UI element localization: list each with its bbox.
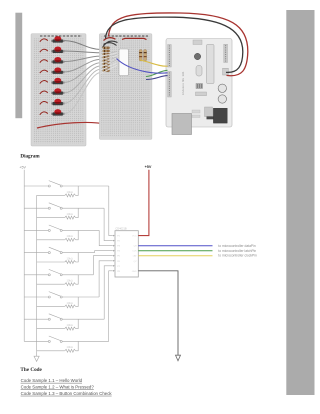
arrowhead into pin 1 <box>113 235 115 237</box>
switch S4 <box>48 247 62 253</box>
wire trunk to IC pin 1 <box>109 186 113 236</box>
wire trunk to IC pin 7 <box>104 266 113 319</box>
switch S8 <box>48 336 62 342</box>
shift register IC on breadboard 2 <box>119 49 128 76</box>
pushbutton 8 on breadboard 1 <box>51 109 64 116</box>
svg-text:to microcontroller clockPin: to microcontroller clockPin <box>218 254 257 258</box>
arrowhead into pin 7 <box>113 265 115 267</box>
wire +5V bus to switch S2 <box>24 207 48 209</box>
gray signal wire 5 from breadboard 1 to breadboard 2 <box>65 63 101 83</box>
resistor R6 10k <box>37 297 79 308</box>
svg-text:to microcontroller dataPin: to microcontroller dataPin <box>218 244 256 248</box>
wire switch S1 to trunk <box>62 185 109 187</box>
arrowhead into pin 6 <box>113 260 115 262</box>
light wires fanning to IC on breadboard 2 <box>101 53 118 74</box>
switch S3 <box>48 225 62 231</box>
ground symbol left <box>36 351 38 356</box>
wire trunk to IC pin 2 <box>104 208 113 240</box>
gray signal wire 6 from breadboard 1 to breadboard 2 <box>65 66 101 93</box>
+5V supply bus <box>23 170 25 342</box>
resistor R7 10k <box>37 319 79 330</box>
green wire breadboard2 to Arduino <box>146 70 168 76</box>
wire trunk to IC pin 6 <box>99 261 113 297</box>
switch S6 <box>48 292 62 298</box>
switch S1 <box>48 181 62 187</box>
wire switch S5 to trunk <box>62 274 93 276</box>
black power wire arc to Arduino <box>106 17 243 72</box>
wire switch S4 to trunk <box>62 252 94 254</box>
pulldown resistors column on breadboard 2 <box>103 47 110 72</box>
arrowhead into pin 5 <box>113 255 115 257</box>
red +5V wire to IC <box>138 170 149 236</box>
dark wire breadboard2 to Arduino <box>146 76 168 80</box>
svg-text:LAT: LAT <box>133 255 138 258</box>
wire trunk to IC pin 4 <box>95 251 113 253</box>
gray signal wire 1 from breadboard 1 to breadboard 2 <box>65 41 101 50</box>
IC U1 shift register box <box>115 231 138 277</box>
wire +5V bus to switch S5 <box>24 274 48 276</box>
wire switch S7 to trunk <box>62 318 104 320</box>
wire trunk to IC pin 5 <box>93 256 112 275</box>
wire +5V bus to switch S3 <box>24 229 48 231</box>
wire +5V bus to switch S7 <box>24 318 48 320</box>
wire trunk to IC pin 8 <box>109 271 113 342</box>
svg-text:10kΩ: 10kΩ <box>67 301 73 305</box>
svg-text:10kΩ: 10kΩ <box>67 256 73 260</box>
black jumper wires on breadboard 2 top <box>103 41 118 47</box>
gray signal wire 3 from breadboard 1 to breadboard 2 <box>65 56 101 61</box>
wire +5V bus to switch S4 <box>24 252 48 254</box>
breadboard 1 (buttons board) <box>31 34 86 146</box>
Arduino board <box>166 39 232 135</box>
switch S2 <box>48 203 62 209</box>
svg-text:+5V: +5V <box>19 166 26 170</box>
arrowhead into pin 3 <box>113 245 115 247</box>
resistor R8 10k <box>37 341 79 352</box>
left gray sidebar <box>15 13 22 119</box>
resistor R4 10k <box>37 253 79 264</box>
right gray sidebar <box>286 10 314 395</box>
blue wire dataPin <box>138 245 212 247</box>
red jumper wire row 1 on breadboard 1 <box>40 39 48 42</box>
switch S7 <box>48 314 62 320</box>
svg-text:10kΩ: 10kΩ <box>67 234 73 238</box>
gray signal wire 7 from breadboard 1 to breadboard 2 <box>65 69 101 103</box>
svg-text:Arduino NG 101: Arduino NG 101 <box>181 71 185 95</box>
pushbutton 6 on breadboard 1 <box>51 88 64 94</box>
red jumper wire row 8 on breadboard 1 <box>40 112 48 115</box>
svg-text:10kΩ: 10kΩ <box>67 279 73 283</box>
svg-text:+5V: +5V <box>145 165 152 169</box>
resistors on right side of breadboard 2 <box>139 50 146 62</box>
gray signal wire 2 from breadboard 1 to breadboard 2 <box>65 51 101 53</box>
black ground wire from IC <box>138 271 178 355</box>
yellow wire breadboard2 to Arduino <box>140 60 168 66</box>
svg-text:The Code: The Code <box>20 367 42 373</box>
breadboard 2 (shift register board) <box>99 34 151 140</box>
ground symbol right <box>176 355 181 361</box>
svg-text:10kΩ: 10kΩ <box>67 190 73 194</box>
wire switch S2 to trunk <box>62 207 104 209</box>
blue wire breadboard2 to Arduino <box>117 59 168 74</box>
wire switch S6 to trunk <box>62 296 99 298</box>
svg-text:VCC: VCC <box>132 236 137 238</box>
red jumper wire row 3 on breadboard 1 <box>40 60 48 63</box>
wire switch S3 to trunk <box>62 229 99 231</box>
arrowhead into pin 8 <box>113 270 115 272</box>
svg-text:to microcontroller latchPin: to microcontroller latchPin <box>218 249 256 253</box>
wire +5V bus to switch S8 <box>24 340 48 342</box>
pushbutton 2 on breadboard 1 <box>51 47 64 54</box>
wire +5V bus to switch S1 <box>24 185 48 187</box>
red jumper wire row 7 on breadboard 1 <box>40 101 48 104</box>
pushbutton 4 on breadboard 1 <box>51 67 64 73</box>
svg-text:Diagram: Diagram <box>20 153 40 159</box>
yellow wire clockPin <box>138 255 212 257</box>
switch S5 <box>48 269 62 275</box>
resistor R2 10k <box>37 208 79 219</box>
svg-text:10kΩ: 10kΩ <box>67 345 73 349</box>
ground bus <box>36 195 38 351</box>
arrowhead into pin 4 <box>113 250 115 252</box>
red jumper wire row 4 on breadboard 1 <box>40 70 48 73</box>
resistor R1 10k <box>37 186 79 197</box>
svg-text:Code Sample 1.1 – Hello World: Code Sample 1.1 – Hello World <box>21 378 83 383</box>
wire switch S8 to trunk <box>62 340 108 342</box>
arrowhead into pin 2 <box>113 240 115 242</box>
pushbutton 1 on breadboard 1 <box>51 36 64 43</box>
svg-text:10kΩ: 10kΩ <box>67 212 73 216</box>
wire trunk to IC pin 3 <box>99 230 113 245</box>
red wire from breadboard 1 bottom to breadboard 2 <box>37 122 107 128</box>
red jumper wire row 6 on breadboard 1 <box>40 91 48 94</box>
pushbutton 7 on breadboard 1 <box>51 99 64 105</box>
svg-text:CD4021B: CD4021B <box>115 227 127 231</box>
red jumper wire row 2 on breadboard 1 <box>40 49 48 52</box>
pushbutton 5 on breadboard 1 <box>51 78 64 84</box>
wire +5V bus to switch S6 <box>24 296 48 298</box>
svg-text:Code Sample 1.3 – Button Combi: Code Sample 1.3 – Button Combination Che… <box>21 391 113 396</box>
svg-text:Code Sample 1.2 – What is Pres: Code Sample 1.2 – What is Pressed? <box>21 384 95 389</box>
gray signal wire 4 from breadboard 1 to breadboard 2 <box>65 59 101 72</box>
red jumper wires on breadboard 2 top <box>104 38 147 41</box>
svg-text:CLK: CLK <box>132 251 137 253</box>
red jumper wire row 5 on breadboard 1 <box>40 81 48 84</box>
resistor R5 10k <box>37 275 79 286</box>
gray signal wire 8 from breadboard 1 to breadboard 2 <box>65 73 101 114</box>
svg-text:GND: GND <box>132 271 137 273</box>
pushbutton 3 on breadboard 1 <box>51 57 64 64</box>
resistor R3 10k <box>37 230 79 241</box>
red power wire arc to Arduino <box>109 13 248 76</box>
svg-text:10kΩ: 10kΩ <box>67 323 73 327</box>
green wire latchPin <box>138 250 212 252</box>
